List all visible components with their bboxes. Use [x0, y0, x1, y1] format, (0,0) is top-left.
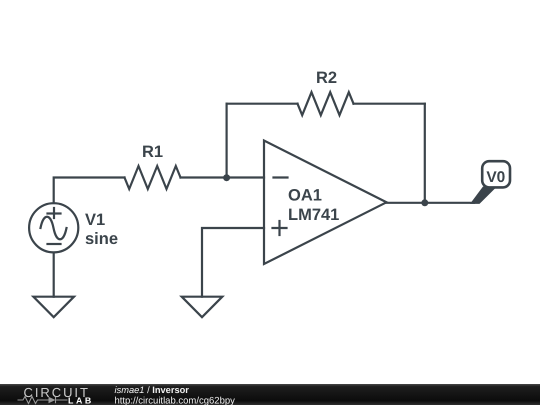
svg-text:R1: R1 — [142, 143, 163, 161]
svg-text:ismae1 / Inversor: ismae1 / Inversor — [115, 385, 190, 395]
node junction (R1 / feedback) — [223, 174, 230, 181]
wire op-amp + input to ground — [202, 228, 264, 297]
ground (op-amp + input) — [182, 297, 223, 318]
svg-text:OA1: OA1 — [288, 187, 322, 205]
wire feedback top right — [354, 103, 425, 105]
wire feedback left vertical — [226, 104, 228, 178]
svg-text:R2: R2 — [316, 69, 337, 87]
wire feedback top left — [227, 103, 298, 105]
svg-text:V1: V1 — [85, 211, 105, 229]
resistor R2 — [298, 69, 354, 115]
svg-text:LM741: LM741 — [288, 206, 339, 224]
wire V1 top to R1 — [54, 178, 125, 204]
voltage source V1 sine — [29, 203, 118, 252]
flag V0 — [470, 161, 510, 204]
resistor R1 — [125, 143, 181, 189]
ground (V1) — [33, 297, 74, 318]
CircuitLab logo — [18, 385, 94, 405]
footer bar — [0, 384, 540, 405]
footer title text — [115, 385, 236, 405]
svg-text:sine: sine — [85, 230, 118, 248]
wire feedback right vertical — [424, 104, 426, 203]
node junction (output / feedback) — [421, 199, 428, 206]
wire R1 to op-amp inverting input — [181, 176, 265, 178]
wire V1 bottom to ground — [53, 253, 55, 297]
wire op-amp output — [387, 202, 475, 204]
op-amp OA1 LM741 — [264, 141, 387, 265]
svg-text:V0: V0 — [486, 169, 505, 186]
svg-text:LAB: LAB — [68, 395, 94, 405]
svg-text:http://circuitlab.com/cg62bpy: http://circuitlab.com/cg62bpy — [115, 395, 236, 405]
